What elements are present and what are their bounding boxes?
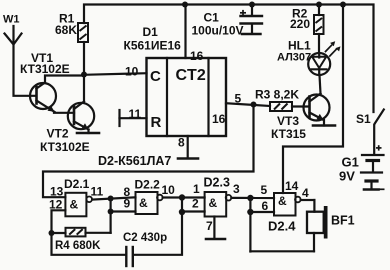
- svg-text:W1: W1: [3, 14, 20, 26]
- svg-text:&: &: [139, 196, 148, 210]
- svg-text:C1: C1: [204, 11, 220, 25]
- svg-text:68K: 68K: [55, 23, 77, 37]
- svg-text:C2 430p: C2 430p: [123, 232, 167, 244]
- svg-text:R: R: [151, 114, 162, 131]
- svg-text:КТ3102Е: КТ3102Е: [20, 62, 70, 76]
- svg-text:D2.4: D2.4: [268, 219, 296, 234]
- svg-text:D1: D1: [143, 25, 159, 39]
- svg-text:100u/10V: 100u/10V: [192, 24, 244, 38]
- svg-text:R4 680K: R4 680K: [55, 240, 101, 252]
- svg-text:13: 13: [50, 185, 64, 199]
- svg-text:16: 16: [212, 112, 226, 126]
- svg-text:2: 2: [192, 197, 199, 211]
- svg-text:5: 5: [235, 92, 242, 106]
- svg-text:220: 220: [290, 17, 310, 31]
- svg-text:BF1: BF1: [331, 214, 355, 228]
- svg-text:5: 5: [261, 183, 268, 197]
- svg-text:&: &: [278, 194, 287, 208]
- svg-text:G1: G1: [342, 155, 359, 170]
- svg-text:АЛ307: АЛ307: [277, 52, 311, 64]
- svg-text:VT2: VT2: [47, 127, 69, 141]
- svg-text:14: 14: [285, 179, 299, 193]
- svg-text:10: 10: [125, 65, 139, 79]
- svg-text:11: 11: [91, 185, 104, 199]
- svg-text:3: 3: [233, 182, 240, 196]
- svg-text:11: 11: [129, 107, 142, 121]
- svg-text:КТ315: КТ315: [271, 127, 306, 141]
- svg-text:C: C: [150, 68, 161, 85]
- svg-text:6: 6: [262, 199, 269, 213]
- svg-text:8: 8: [178, 136, 185, 150]
- svg-text:12: 12: [49, 198, 63, 212]
- svg-text:9V: 9V: [339, 169, 355, 184]
- svg-text:D2.3: D2.3: [204, 176, 230, 190]
- svg-text:D2-К561ЛА7: D2-К561ЛА7: [98, 154, 171, 168]
- svg-text:HL1: HL1: [288, 39, 311, 53]
- svg-text:&: &: [209, 196, 218, 210]
- svg-text:D2.2: D2.2: [135, 178, 161, 192]
- svg-text:К561ИЕ16: К561ИЕ16: [124, 39, 182, 53]
- svg-text:CT2: CT2: [176, 67, 206, 84]
- svg-text:7: 7: [206, 219, 213, 233]
- svg-text:10: 10: [162, 183, 176, 197]
- svg-text:КТ3102Е: КТ3102Е: [40, 140, 90, 154]
- svg-text:D2.1: D2.1: [64, 177, 90, 191]
- svg-text:VT3: VT3: [277, 114, 299, 128]
- svg-text:9: 9: [124, 197, 131, 211]
- svg-text:R3 8,2K: R3 8,2K: [255, 88, 299, 102]
- svg-text:&: &: [70, 198, 79, 212]
- svg-text:16: 16: [190, 49, 204, 63]
- svg-text:1: 1: [193, 182, 200, 196]
- svg-text:4: 4: [302, 186, 309, 200]
- svg-text:S1: S1: [356, 112, 371, 126]
